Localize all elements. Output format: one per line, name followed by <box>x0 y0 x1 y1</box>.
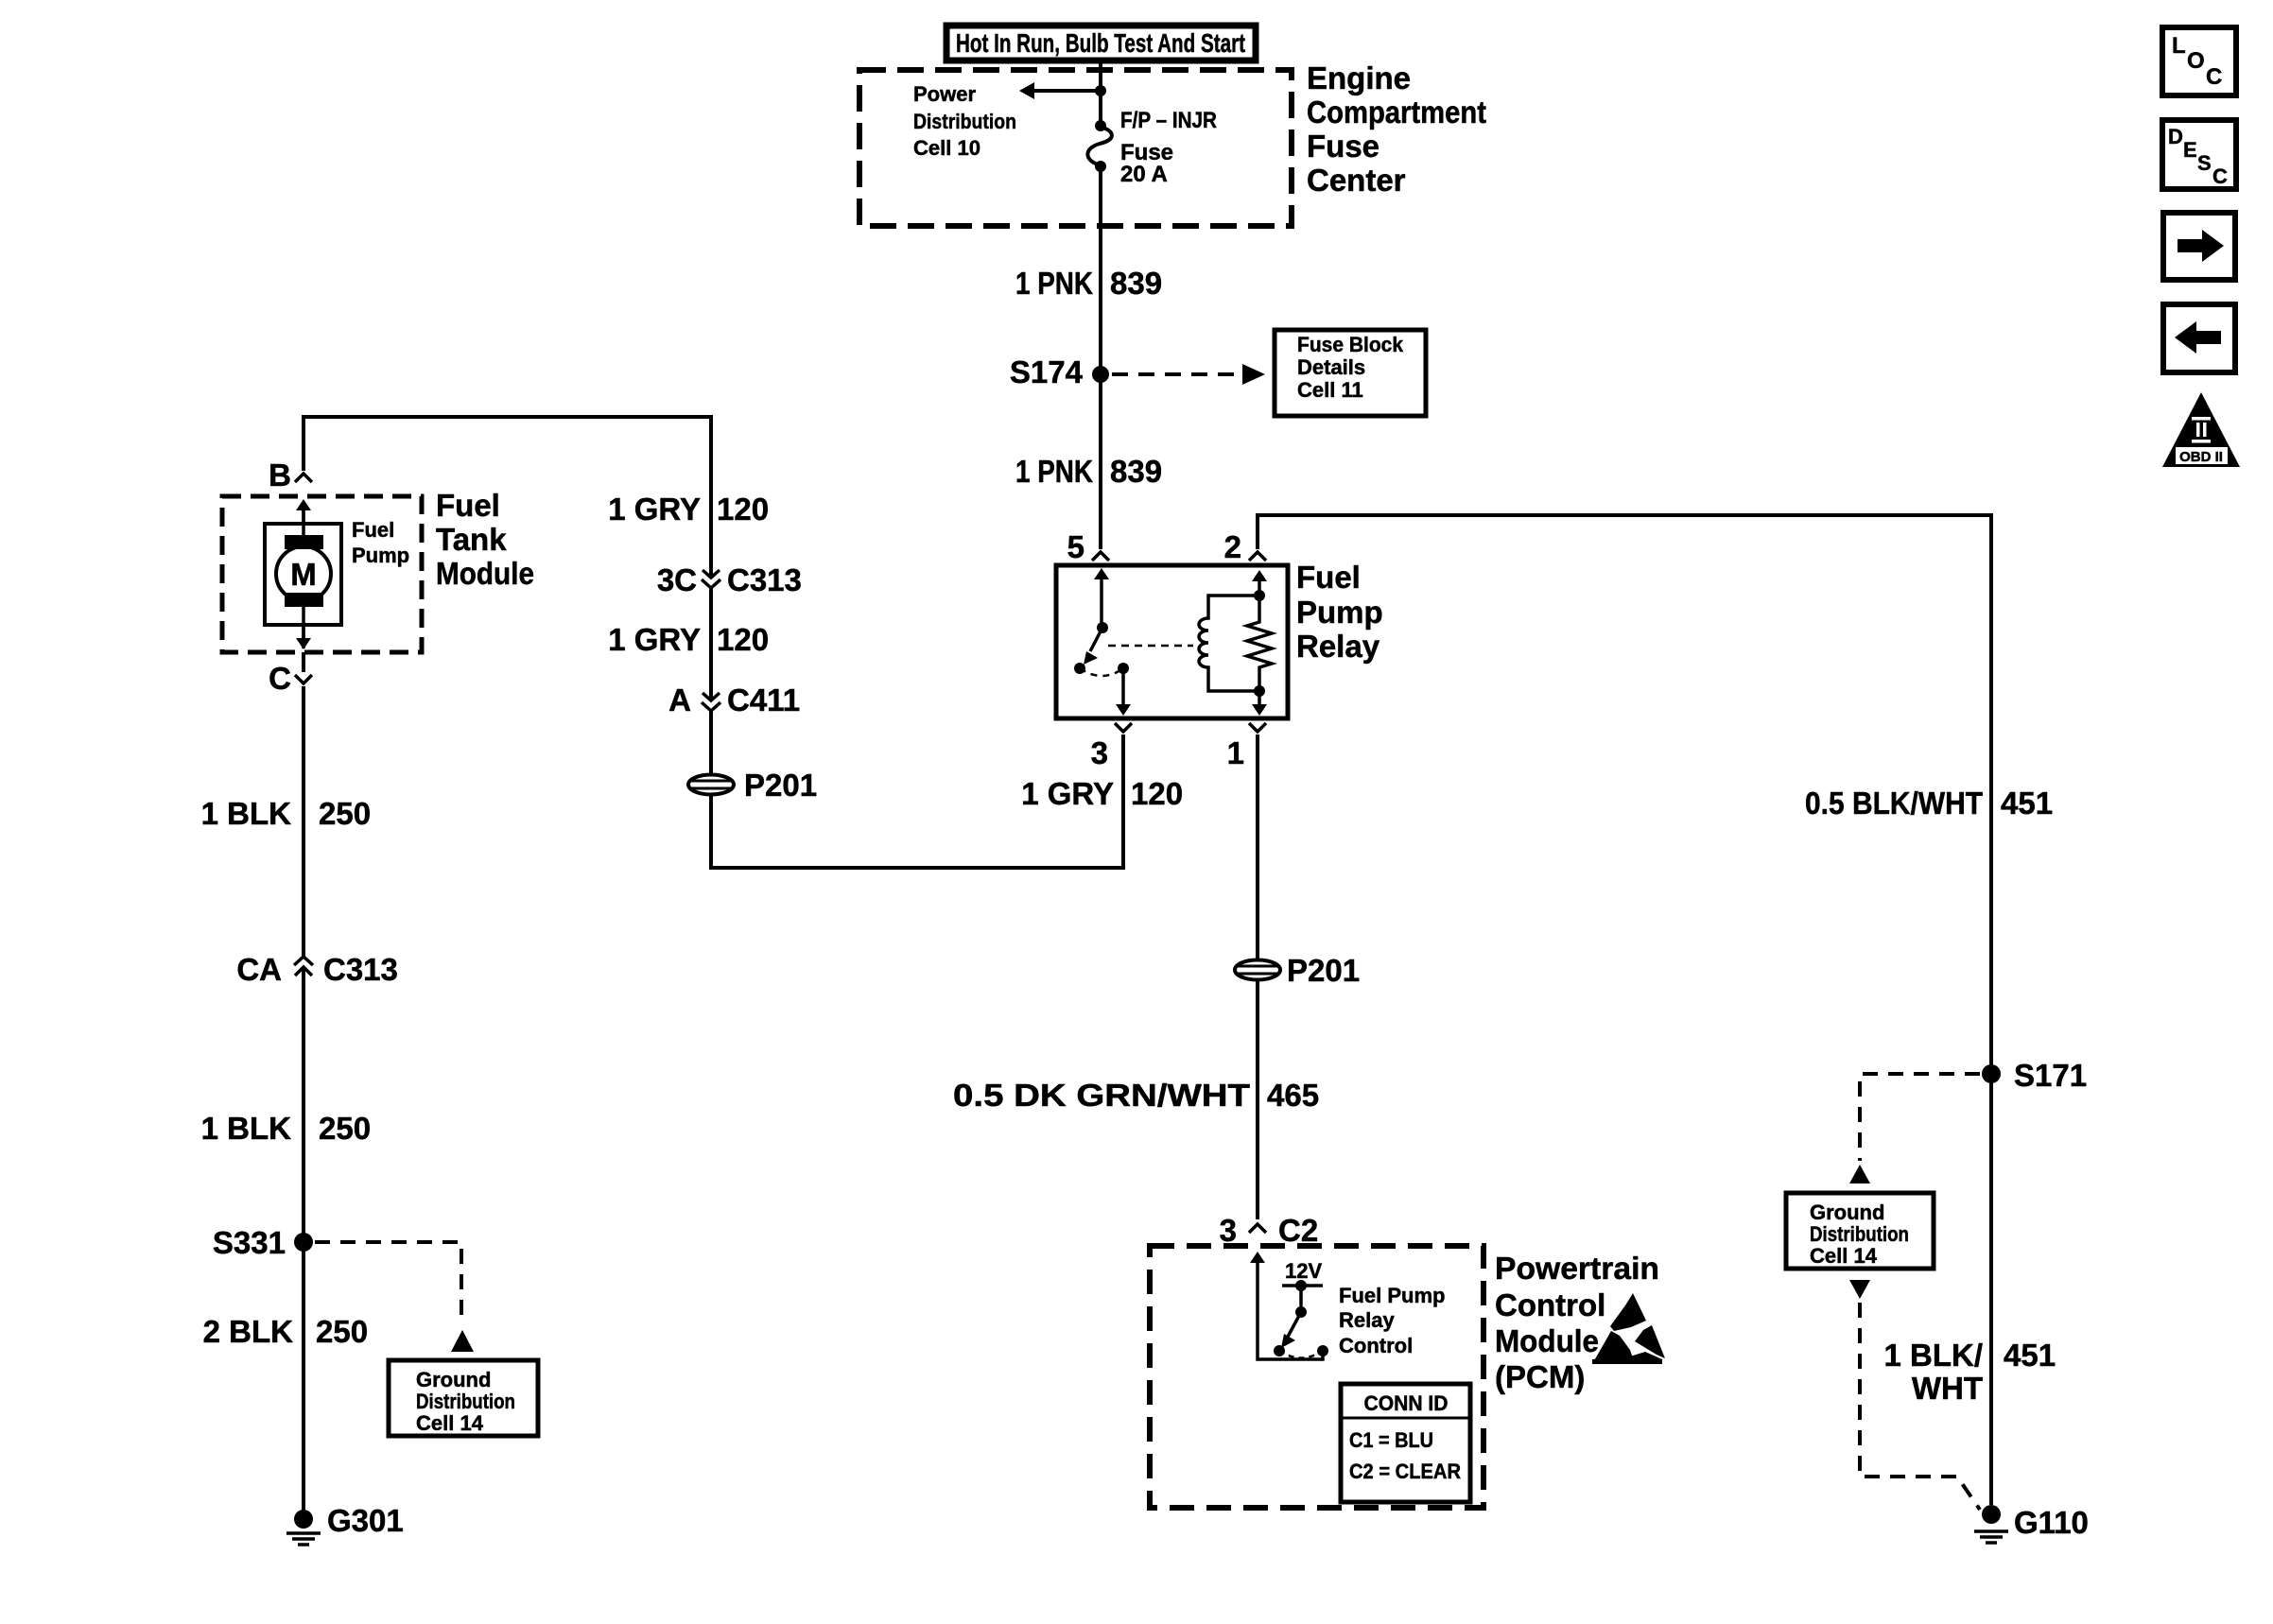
CONN ID table <box>1341 1384 1470 1502</box>
svg-text:Distribution: Distribution <box>1810 1222 1909 1246</box>
wire label 1 PNK 839 <box>1015 266 1162 301</box>
svg-text:Details: Details <box>1297 355 1365 379</box>
svg-text:250: 250 <box>316 1314 368 1349</box>
svg-text:Module: Module <box>1495 1323 1599 1358</box>
svg-text:3: 3 <box>1220 1213 1237 1248</box>
svg-text:Distribution: Distribution <box>913 110 1016 133</box>
svg-text:F/P – INJR: F/P – INJR <box>1120 108 1217 133</box>
splice S331 <box>213 1225 313 1260</box>
svg-text:5: 5 <box>1067 529 1084 564</box>
icon DESC <box>2162 120 2236 189</box>
wire label 1 GRY 120 (pin 3) <box>1021 776 1183 811</box>
ESD warning symbol <box>1592 1293 1665 1364</box>
svg-text:Distribution: Distribution <box>416 1390 515 1413</box>
triangle marker above box <box>1849 1165 1870 1183</box>
svg-text:Cell 14: Cell 14 <box>416 1411 484 1435</box>
ground G301 <box>286 1503 404 1545</box>
wire label 1 GRY 120 <box>608 492 769 527</box>
svg-text:OBD II: OBD II <box>2179 449 2223 465</box>
engine compartment fuse center dashed box <box>859 70 1292 226</box>
relay coil arrow down to pin 1 <box>1252 691 1267 716</box>
wire fuse to S174 <box>1099 166 1102 369</box>
svg-text:A: A <box>668 682 691 717</box>
svg-text:Center: Center <box>1307 163 1406 198</box>
wire label 1 BLK 250 <box>201 1111 371 1146</box>
connector 3C / C313 <box>657 562 802 597</box>
svg-text:3C: 3C <box>657 562 697 597</box>
svg-text:S171: S171 <box>2014 1058 2087 1093</box>
wire label 1 GRY 120 <box>608 622 769 657</box>
relay switch pivot <box>1097 622 1108 633</box>
svg-text:839: 839 <box>1110 266 1162 301</box>
svg-text:Fuse: Fuse <box>1307 129 1379 164</box>
wire C down to G301 <box>302 652 305 1511</box>
svg-text:E: E <box>2183 138 2197 162</box>
text Power Distribution Cell 10 <box>913 82 1016 160</box>
text Engine Compartment Fuse Center <box>1307 60 1486 198</box>
pin 3 <box>1091 723 1132 770</box>
svg-text:B: B <box>269 458 291 492</box>
svg-text:S174: S174 <box>1010 354 1084 389</box>
svg-text:1 GRY: 1 GRY <box>608 492 701 527</box>
connector CA / C313 <box>236 952 398 987</box>
svg-text:Relay: Relay <box>1296 629 1380 664</box>
PCM switch contact right <box>1317 1345 1328 1356</box>
svg-text:Relay: Relay <box>1339 1308 1395 1332</box>
svg-text:Engine: Engine <box>1307 60 1411 95</box>
svg-text:O: O <box>2187 48 2205 74</box>
relay switch contact left <box>1074 663 1085 674</box>
svg-text:1: 1 <box>1227 735 1244 770</box>
svg-text:451: 451 <box>2001 786 2053 821</box>
svg-text:CONN ID: CONN ID <box>1364 1391 1449 1415</box>
dashed reference to G110 <box>1860 1303 1980 1510</box>
svg-text:S331: S331 <box>213 1225 286 1260</box>
relay coil <box>1199 596 1259 691</box>
svg-text:120: 120 <box>717 622 769 657</box>
svg-text:C2 = CLEAR: C2 = CLEAR <box>1349 1460 1461 1483</box>
wire S174 to relay pin 5 <box>1099 374 1102 549</box>
fuse F/P - INJR 20 A <box>1087 120 1112 172</box>
text Fuel Tank Module <box>436 488 534 591</box>
label F/P - INJR Fuse 20 A <box>1120 108 1217 187</box>
relay mechanical dashed link <box>1108 645 1193 648</box>
svg-text:20 A: 20 A <box>1120 162 1168 187</box>
svg-text:1 GRY: 1 GRY <box>608 622 701 657</box>
reference box Ground Distribution Cell 14 (right) <box>1786 1193 1934 1269</box>
grommet P201 <box>688 768 817 803</box>
wire label 1 PNK 839 <box>1015 454 1162 489</box>
svg-text:CA: CA <box>236 952 282 987</box>
pin C <box>269 661 312 696</box>
svg-text:1 GRY: 1 GRY <box>1021 776 1114 811</box>
svg-text:2 BLK: 2 BLK <box>203 1314 294 1349</box>
wire label 1 BLK/ WHT 451 <box>1883 1338 2056 1406</box>
svg-text:2: 2 <box>1224 529 1241 564</box>
svg-text:(PCM): (PCM) <box>1495 1359 1585 1394</box>
text Fuel Pump Relay <box>1296 560 1383 664</box>
svg-text:Hot In Run, Bulb Test And Star: Hot In Run, Bulb Test And Start <box>956 28 1245 58</box>
svg-text:1 PNK: 1 PNK <box>1015 454 1093 489</box>
svg-text:P201: P201 <box>744 768 817 803</box>
svg-text:C1 = BLU: C1 = BLU <box>1349 1428 1433 1452</box>
fuel pump box <box>265 524 341 625</box>
svg-text:D: D <box>2168 125 2183 148</box>
relay output arrow to pin 3 <box>1116 668 1131 716</box>
icon arrow left <box>2163 304 2235 372</box>
svg-text:12V: 12V <box>1285 1259 1322 1283</box>
icon OBD II triangle <box>2162 392 2240 467</box>
svg-text:0.5 BLK/WHT: 0.5 BLK/WHT <box>1805 786 1983 821</box>
svg-text:Pump: Pump <box>352 544 409 567</box>
wire relay pin 2 up and right to right side <box>1258 515 1991 1505</box>
wire label 1 BLK 250 <box>201 796 371 831</box>
svg-text:Powertrain: Powertrain <box>1495 1251 1659 1286</box>
svg-text:Cell 10: Cell 10 <box>913 136 980 160</box>
svg-text:Fuel Pump: Fuel Pump <box>1339 1284 1445 1307</box>
wire label 2 BLK 250 <box>203 1314 368 1349</box>
PCM dashed box <box>1150 1246 1484 1508</box>
wire label 0.5 DK GRN/WHT 465 <box>953 1078 1319 1113</box>
reference box Ground Distribution Cell 14 (left) <box>389 1360 538 1436</box>
wire relay pin 1 down to PCM <box>1256 734 1259 1219</box>
svg-text:1 PNK: 1 PNK <box>1015 266 1093 301</box>
svg-text:Ground: Ground <box>416 1368 491 1391</box>
svg-text:Fuel: Fuel <box>352 518 394 542</box>
wire C313 up and left to fuel tank module <box>304 417 711 578</box>
svg-text:Control: Control <box>1495 1287 1605 1322</box>
wire pin 3 down, left, and up the GRY run <box>711 710 1123 868</box>
svg-text:S: S <box>2197 151 2212 175</box>
svg-text:1 BLK: 1 BLK <box>201 1111 292 1146</box>
connector A / C411 <box>668 682 800 717</box>
ground G110 <box>1974 1505 2089 1543</box>
svg-text:C313: C313 <box>323 952 398 987</box>
splice S171 <box>1982 1058 2087 1093</box>
triangle marker below box <box>1849 1280 1870 1299</box>
relay switch arm with arrow <box>1084 628 1102 665</box>
relay switch dashed throw arc <box>1080 668 1123 676</box>
pin 2 <box>1224 529 1266 564</box>
svg-text:C411: C411 <box>727 682 800 717</box>
junction node <box>1095 85 1106 96</box>
svg-text:L: L <box>2172 33 2186 59</box>
svg-text:Ground: Ground <box>1810 1201 1884 1224</box>
svg-text:C: C <box>2206 64 2222 90</box>
svg-text:451: 451 <box>2004 1338 2056 1373</box>
reference box Fuse Block Details Cell 11 <box>1275 330 1426 416</box>
pin 3 / C2 <box>1220 1213 1319 1248</box>
label Fuel Pump <box>352 518 409 567</box>
svg-text:1 BLK/: 1 BLK/ <box>1883 1338 1983 1373</box>
svg-text:Pump: Pump <box>1296 595 1383 630</box>
relay resistor <box>1247 596 1272 691</box>
svg-text:G301: G301 <box>327 1503 404 1538</box>
dashed reference from S331 <box>315 1242 461 1325</box>
svg-text:120: 120 <box>1131 776 1183 811</box>
svg-text:120: 120 <box>717 492 769 527</box>
text Fuel Pump Relay Control <box>1339 1284 1445 1357</box>
svg-text:Cell 14: Cell 14 <box>1810 1244 1878 1268</box>
svg-text:250: 250 <box>319 796 371 831</box>
PCM switch dashed throw arc <box>1279 1351 1323 1358</box>
pin 1 <box>1227 723 1266 770</box>
svg-text:Module: Module <box>436 556 534 591</box>
svg-text:P201: P201 <box>1287 953 1360 988</box>
svg-text:Tank: Tank <box>436 522 507 557</box>
arrow to Power Distribution <box>1019 82 1101 99</box>
svg-text:Compartment: Compartment <box>1307 95 1486 130</box>
relay box <box>1056 565 1288 718</box>
relay coil top node <box>1254 590 1265 601</box>
splice S174 <box>1010 354 1109 389</box>
svg-text:250: 250 <box>319 1111 371 1146</box>
relay switch common arrow (pin 5 side) <box>1094 568 1109 626</box>
svg-text:C: C <box>269 661 291 696</box>
svg-text:Power: Power <box>913 82 976 106</box>
grommet P201 (pin 1 wire) <box>1235 953 1360 988</box>
triangle marker <box>451 1330 474 1352</box>
PCM driver arrow up to pin 3 <box>1250 1252 1323 1359</box>
svg-text:Fuel: Fuel <box>1296 560 1361 595</box>
12V supply <box>1282 1259 1323 1318</box>
label box "Hot In Run, Bulb Test And Start" <box>946 26 1256 60</box>
wire C411 to C313 <box>709 589 713 700</box>
wire from Hot In Run box into fuse center <box>1099 60 1102 126</box>
wire label 0.5 BLK/WHT 451 <box>1805 786 2053 821</box>
svg-text:Cell 11: Cell 11 <box>1297 378 1363 402</box>
relay coil bottom node <box>1254 685 1265 697</box>
text Powertrain Control Module (PCM) <box>1495 1251 1659 1394</box>
pin B <box>269 458 312 492</box>
dashed reference from S171 <box>1860 1074 1980 1161</box>
arrow down to pin C <box>296 625 311 649</box>
PCM switch contact left <box>1274 1345 1285 1356</box>
dashed arrow to Fuse Block Details <box>1112 364 1265 385</box>
svg-text:G110: G110 <box>2014 1505 2089 1540</box>
icon LOC <box>2162 27 2236 95</box>
pin 5 <box>1067 529 1109 564</box>
svg-text:WHT: WHT <box>1912 1371 1983 1406</box>
svg-text:839: 839 <box>1110 454 1162 489</box>
icon arrow right <box>2163 213 2235 280</box>
svg-text:Control: Control <box>1339 1334 1413 1357</box>
svg-text:C2: C2 <box>1278 1213 1318 1248</box>
arrow up to pin B <box>296 499 311 524</box>
svg-text:Fuel: Fuel <box>436 488 500 523</box>
motor M <box>276 508 331 648</box>
fuel tank module dashed box <box>222 496 422 652</box>
relay coil arrow up to pin 2 <box>1252 570 1267 596</box>
svg-text:465: 465 <box>1267 1078 1319 1113</box>
relay switch contact right <box>1118 663 1129 674</box>
svg-text:M: M <box>290 557 317 592</box>
svg-text:3: 3 <box>1091 735 1108 770</box>
svg-text:C313: C313 <box>727 562 802 597</box>
svg-text:Fuse Block: Fuse Block <box>1297 333 1404 356</box>
svg-text:C: C <box>2212 164 2228 188</box>
PCM switch arm with arrow <box>1281 1312 1301 1348</box>
svg-text:0.5 DK GRN/WHT: 0.5 DK GRN/WHT <box>953 1078 1250 1113</box>
svg-text:1 BLK: 1 BLK <box>201 796 292 831</box>
